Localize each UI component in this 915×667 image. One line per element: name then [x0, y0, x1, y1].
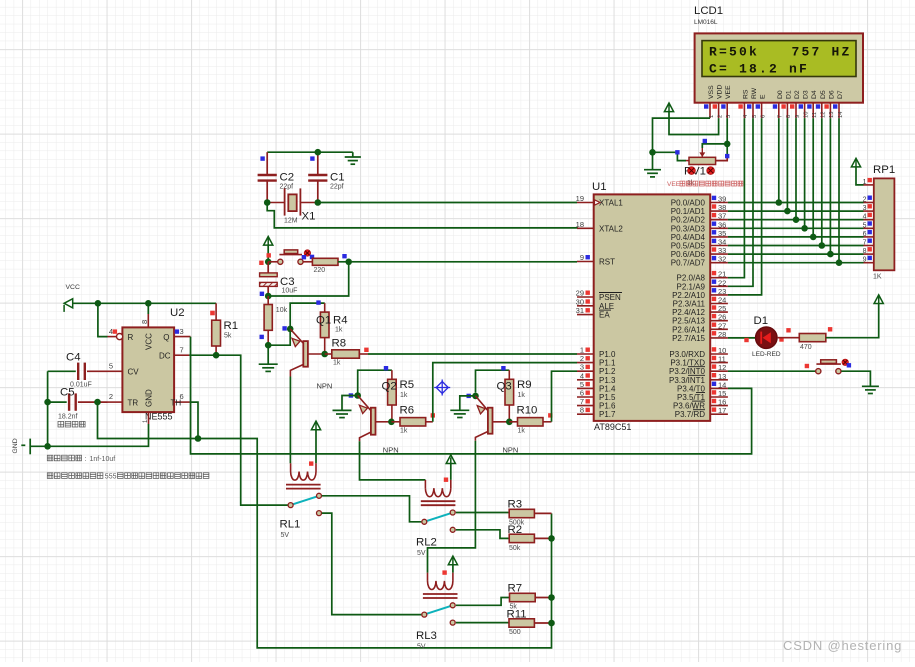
svg-text:RP1: RP1	[873, 164, 895, 176]
svg-text:VDD: VDD	[717, 85, 724, 99]
svg-text:3: 3	[180, 327, 184, 336]
LED D1 LED-RED	[756, 327, 777, 348]
node VSS/pot junction	[649, 149, 656, 156]
resistor R10 1k	[518, 418, 544, 426]
svg-text:VSS: VSS	[708, 85, 715, 99]
wire button/220 to RST	[338, 261, 577, 263]
node Q2 base / R5 / R6 junction	[388, 419, 395, 426]
svg-text:CSDN @hestering: CSDN @hestering	[783, 638, 902, 653]
U2 pin DC pin 7 stub	[174, 354, 189, 356]
node Q1 base / R8 / R4 junction	[321, 351, 328, 358]
wire R7 right to rail	[535, 597, 551, 599]
svg-text:1k: 1k	[333, 360, 341, 367]
wire VCC rail to R1	[73, 302, 216, 304]
svg-text:CV: CV	[128, 368, 140, 377]
svg-text:32: 32	[718, 255, 726, 264]
wire P2.0 to LCD RS	[728, 118, 745, 278]
wire R8 to U1 P1.0	[368, 353, 577, 355]
svg-text:nF: nF	[789, 61, 809, 76]
U2 pin Q pin 3 stub	[174, 336, 190, 338]
U2 pin VCC pin 8 stub	[147, 314, 149, 327]
svg-text:AT89C51: AT89C51	[594, 422, 631, 432]
svg-text:5: 5	[863, 222, 867, 229]
LCD pins 1-14	[704, 85, 715, 118]
U1 right pins	[671, 195, 728, 208]
wire R2 right to rail	[534, 537, 551, 539]
svg-text:VEE: VEE	[725, 85, 732, 99]
svg-text:GND: GND	[145, 389, 154, 407]
node R2/R3 rail junction	[548, 535, 555, 542]
wire R9 top loop to Q3 node	[476, 370, 510, 392]
wire 10k node to ground	[267, 345, 269, 364]
svg-text:R10: R10	[517, 405, 538, 417]
U1 left pins	[576, 194, 624, 208]
svg-text:14: 14	[838, 111, 844, 118]
transistor Q3 NPN	[475, 396, 509, 441]
U2 pin TH pin 6 stub	[174, 401, 190, 403]
svg-text:1k: 1k	[518, 428, 526, 435]
microcontroller U1 AT89C51 body	[594, 194, 711, 421]
svg-text:VCC: VCC	[66, 284, 80, 291]
node R11 rail junction	[548, 620, 555, 627]
display LCD1 LM016L body	[695, 33, 863, 102]
wire P3.2 to push button	[728, 370, 816, 372]
svg-text:LM016L: LM016L	[694, 19, 718, 26]
wire 10k node to Q1 emitter node	[268, 329, 290, 345]
node R7 rail junction	[548, 594, 555, 601]
power terminal VCC at 470	[874, 295, 883, 304]
svg-text:19: 19	[576, 194, 584, 203]
svg-text:1k: 1k	[335, 327, 343, 334]
svg-text:R4: R4	[333, 315, 348, 327]
wire RST node down to C3 bottom node	[268, 262, 349, 296]
svg-text:10uF: 10uF	[282, 288, 298, 295]
crystal X1 12M	[267, 188, 318, 215]
svg-text:C3: C3	[280, 276, 295, 288]
svg-text:XTAL1: XTAL1	[599, 199, 623, 208]
svg-text:NPN: NPN	[383, 446, 399, 455]
svg-text:1k: 1k	[400, 392, 408, 399]
svg-text:D7: D7	[837, 90, 844, 99]
note recommended capacitance	[47, 455, 81, 461]
RP1 pins 1-9	[863, 178, 874, 186]
resistor R11 500	[509, 619, 534, 627]
svg-text:P2.7/A15: P2.7/A15	[672, 334, 705, 343]
svg-text:7: 7	[863, 240, 867, 247]
power terminal VCC at RL3	[448, 556, 457, 565]
wire C4/C5 left leg down to ground rail	[47, 371, 49, 446]
wire R10 to U1 P1.2	[552, 371, 578, 422]
node ground rail	[44, 443, 51, 450]
resistor R4 1k vertical	[324, 303, 326, 354]
svg-text:2: 2	[717, 115, 723, 118]
svg-text:R11: R11	[507, 609, 527, 621]
svg-text:1k: 1k	[518, 392, 526, 399]
svg-text:18.2nf: 18.2nf	[58, 414, 78, 421]
svg-text:TR: TR	[128, 398, 139, 407]
breakpoint marker circles at RV1	[688, 167, 696, 175]
svg-text:C5: C5	[60, 387, 75, 399]
power terminal VCC above C3	[264, 237, 273, 246]
wire P0 bus to RP1	[728, 202, 864, 204]
svg-text:1: 1	[863, 179, 867, 186]
svg-text:5k: 5k	[224, 333, 232, 340]
svg-text:12M: 12M	[284, 218, 298, 225]
svg-text:R=50k: R=50k	[709, 45, 759, 60]
svg-text:NPN: NPN	[503, 446, 519, 455]
node Q3 emitter junction	[472, 393, 479, 400]
wire Q1 collector down to RL1 coil	[289, 377, 291, 464]
svg-text:D1: D1	[754, 315, 769, 327]
breakpoint marker red circle on button 2	[842, 359, 848, 365]
wire Q2 node to ground	[342, 396, 358, 411]
ground at Q3	[450, 410, 469, 417]
wire wiper link	[702, 144, 727, 148]
resistor R6 1k	[400, 418, 426, 426]
relay RL1 coil	[286, 463, 321, 488]
svg-text:9: 9	[795, 115, 801, 118]
wire VCC to 555 reset pin 4	[98, 303, 108, 336]
resistor R1 5k	[215, 303, 217, 355]
svg-text:R: R	[128, 333, 134, 342]
wire VSS node to RV1 left	[653, 152, 687, 160]
svg-text:50k: 50k	[509, 545, 521, 552]
svg-text:1K: 1K	[873, 274, 882, 281]
wire RP1 pin1 to VCC	[856, 167, 864, 185]
svg-text:R1: R1	[224, 320, 239, 332]
power terminal VCC at RL2	[446, 455, 455, 465]
node VEE/wiper junction	[724, 141, 731, 148]
svg-text:D0: D0	[777, 90, 784, 99]
resistor R7 5k	[510, 593, 536, 601]
relay RL2 switch	[422, 510, 455, 532]
power terminal VCC for LCD VDD	[664, 103, 673, 112]
XTAL1 input arrow mark	[595, 200, 601, 205]
push button (count)	[816, 360, 841, 374]
svg-text:VEE: VEE	[667, 181, 681, 188]
svg-text:R7: R7	[508, 583, 523, 595]
svg-text:NPN: NPN	[317, 382, 333, 391]
svg-text:18: 18	[576, 220, 584, 229]
note 555 accuracy	[47, 473, 103, 479]
wire P2.2 to LCD E	[728, 118, 762, 295]
power terminal VCC (left)	[64, 299, 73, 312]
svg-text:28: 28	[718, 330, 726, 339]
svg-text:P3.7/RD: P3.7/RD	[675, 410, 705, 419]
wire button to ground	[841, 371, 870, 386]
svg-text:31: 31	[576, 306, 584, 315]
svg-text:8: 8	[580, 406, 584, 415]
capacitor C2 22pf	[258, 152, 277, 202]
LCD screen	[702, 41, 856, 77]
power terminal VCC at RP1	[851, 158, 860, 167]
svg-text:P1.7: P1.7	[599, 410, 616, 419]
svg-text:LED-RED: LED-RED	[752, 351, 781, 358]
relay RL1 switch	[288, 493, 321, 515]
node Q2 emitter junction	[354, 392, 361, 399]
wire LCD VDD to VCC	[669, 112, 719, 135]
node VCC/R junction	[95, 300, 102, 307]
capacitor C4	[48, 363, 108, 380]
svg-text:RW: RW	[751, 87, 758, 99]
origin marker blue	[434, 380, 450, 396]
node TR branch junction	[94, 399, 101, 406]
svg-text:757 HZ: 757 HZ	[792, 45, 852, 60]
svg-text:11: 11	[812, 112, 818, 118]
relay RL3 switch	[422, 603, 455, 625]
wire RL2 coil right to VCC	[450, 464, 452, 480]
wire top rail C2/C1 to ground	[267, 151, 353, 153]
ground at Q2	[333, 410, 352, 417]
svg-text:R2: R2	[508, 524, 523, 536]
svg-text:30: 30	[576, 297, 584, 306]
wire XTAL2 staircase	[267, 203, 577, 229]
push button (reset)	[268, 250, 312, 265]
resistor 220 (reset)	[312, 258, 338, 265]
node C2 bottom junction	[264, 199, 271, 206]
wire 555 output Q down and right to T0 rail	[191, 337, 752, 454]
svg-text:R5: R5	[400, 379, 415, 391]
resistor R8 1k	[332, 350, 360, 358]
svg-text:1k: 1k	[400, 428, 408, 435]
svg-text:C1: C1	[330, 172, 345, 184]
resistor R2 50k	[509, 534, 534, 542]
svg-text:4: 4	[109, 327, 113, 336]
U2 pin GND pin 1 stub	[148, 412, 150, 424]
wire LCD VEE to RV1 wiper and right end	[726, 118, 728, 157]
svg-text:7: 7	[180, 345, 184, 354]
svg-text:EA: EA	[599, 311, 610, 320]
wire VCC to C3 node	[267, 245, 269, 262]
transistor Q1 NPN	[290, 329, 325, 377]
svg-text:P0.7/AD7: P0.7/AD7	[671, 259, 706, 268]
wire LCD D0-D7 down to P0 bus with junctions	[778, 118, 780, 202]
svg-text:13: 13	[829, 112, 835, 118]
power terminal GND (left)	[21, 439, 30, 455]
svg-text:Q: Q	[163, 333, 169, 342]
capacitor C3 10uF electrolytic	[260, 262, 278, 296]
wire P2.1 to LCD RW	[728, 118, 753, 286]
power terminal VCC at RL1	[311, 421, 320, 430]
node C1 top junction	[315, 149, 322, 156]
svg-text:R9: R9	[517, 379, 532, 391]
svg-text:Q1: Q1	[316, 315, 331, 327]
wire R3 right to rail	[534, 512, 551, 514]
svg-text:5V: 5V	[281, 532, 290, 539]
node C1 bottom junction	[315, 199, 322, 206]
svg-text:2: 2	[863, 197, 867, 204]
U2 pin CV pin 5 stub	[108, 370, 123, 372]
svg-text:22pf: 22pf	[330, 184, 344, 191]
resistor 10k vertical	[267, 296, 269, 345]
resistor R9 1k vertical	[508, 370, 510, 422]
svg-text:PSEN: PSEN	[599, 293, 621, 302]
wire GND rail	[30, 424, 148, 446]
wire RL1 NC contact to RL2 common	[322, 496, 422, 522]
svg-text:6: 6	[760, 115, 766, 118]
ground under LCD VSS	[644, 170, 661, 177]
svg-text:RL2: RL2	[416, 537, 437, 549]
svg-text:U1: U1	[592, 181, 607, 193]
resistor pack RP1 1K body	[874, 178, 895, 270]
ground at button	[862, 386, 879, 393]
svg-text:8: 8	[140, 320, 149, 324]
wire RL3 NO contact to R11	[456, 622, 509, 624]
svg-text:6: 6	[863, 231, 867, 238]
svg-text:17: 17	[718, 406, 726, 415]
svg-text:8: 8	[786, 115, 792, 118]
svg-text:X1: X1	[302, 211, 316, 223]
svg-text:4: 4	[863, 214, 867, 221]
svg-text:5V: 5V	[417, 644, 426, 651]
breakpoint marker red circle on button	[304, 250, 310, 256]
svg-text:GND: GND	[12, 438, 19, 453]
svg-text:1nf-10uf: 1nf-10uf	[90, 456, 116, 463]
svg-text:RS: RS	[742, 89, 749, 99]
wire LED to resistor 470	[777, 337, 799, 339]
U2 pin R with inversion bubble pin 4	[108, 334, 123, 340]
svg-text:500: 500	[509, 629, 521, 636]
svg-text:DC: DC	[159, 351, 171, 360]
node R1/DC junction	[213, 352, 220, 359]
ground (crystal top right)	[352, 152, 354, 157]
svg-text:D4: D4	[811, 90, 818, 99]
svg-text:C4: C4	[66, 352, 81, 364]
wire Q3 node to ground	[460, 396, 476, 410]
wire DC to R1 bottom node and down to relay RL1 common	[189, 355, 288, 505]
U2 pin TR pin 2 stub	[108, 401, 123, 403]
svg-text:10: 10	[803, 112, 809, 118]
wire Q2 collector to RL2 coil	[360, 441, 426, 480]
svg-text:7: 7	[778, 115, 784, 118]
resistor 470	[799, 334, 826, 342]
op-amp U2 body NE555	[122, 327, 174, 412]
node 10k bottom junction	[265, 342, 272, 349]
svg-text:D1: D1	[785, 90, 792, 99]
svg-text:TH: TH	[171, 398, 182, 407]
wire 470 to VCC	[826, 304, 879, 338]
potentiometer RV1 1k	[686, 148, 716, 165]
resistor R5 1k vertical	[391, 370, 393, 422]
svg-text:RL1: RL1	[280, 519, 301, 531]
relay RL2 coil	[421, 480, 456, 505]
ground under 10k	[259, 364, 278, 371]
svg-text:470: 470	[800, 344, 812, 351]
wire R4 top loop to Q1 emitter node	[290, 303, 325, 329]
wire P2.7 to LED D1	[728, 337, 755, 339]
svg-text:RL3: RL3	[416, 630, 437, 642]
capacitor C5	[48, 393, 108, 410]
svg-text:XTAL2: XTAL2	[599, 224, 623, 233]
svg-text::: :	[85, 456, 87, 463]
svg-text:220: 220	[314, 267, 326, 274]
wire TR node down along bottom to measuring rail	[98, 402, 552, 648]
svg-text:LCD1: LCD1	[694, 5, 723, 17]
wire RV1 right pin	[716, 157, 728, 161]
svg-text:12: 12	[821, 112, 827, 118]
svg-text:E: E	[760, 94, 767, 99]
wire RL3 NC contact to R7	[456, 598, 510, 606]
wire Q3 collector to RL3 coil	[428, 441, 476, 573]
svg-text:R3: R3	[508, 499, 523, 511]
svg-text:9: 9	[863, 257, 867, 264]
svg-text:10k: 10k	[276, 307, 288, 314]
svg-text:RST: RST	[599, 258, 615, 267]
resistor R3 500k	[509, 509, 534, 517]
svg-text:D5: D5	[820, 90, 827, 99]
svg-text:R6: R6	[400, 405, 415, 417]
svg-text:D2: D2	[794, 90, 801, 99]
svg-text:ALE: ALE	[599, 302, 614, 311]
svg-text:3: 3	[863, 205, 867, 212]
wire R5 top loop to Q2 node	[358, 370, 392, 392]
transistor Q2 NPN	[358, 396, 392, 442]
svg-text:8: 8	[863, 248, 867, 255]
svg-text:D3: D3	[803, 90, 810, 99]
svg-text:5: 5	[109, 361, 113, 370]
capacitor C1 22pf	[308, 152, 327, 202]
svg-text:Q3: Q3	[497, 381, 512, 393]
node Q1 emitter junction	[287, 326, 294, 333]
node C3 bottom junction	[265, 293, 272, 300]
wire 555 VCC pin 8	[147, 303, 149, 314]
svg-text:2: 2	[109, 392, 113, 401]
svg-text:5: 5	[752, 115, 758, 118]
wire R6 to U1 P1.1	[433, 363, 577, 422]
svg-text:C2: C2	[280, 172, 295, 184]
svg-text:22pf: 22pf	[280, 184, 294, 191]
svg-text:D6: D6	[828, 90, 835, 99]
svg-text:U2: U2	[170, 307, 185, 319]
node TH/TR junction	[195, 435, 202, 442]
svg-text:29: 29	[576, 289, 584, 298]
note capacitor under test	[58, 421, 85, 427]
svg-text:Q2: Q2	[382, 381, 397, 393]
svg-text:5V: 5V	[417, 550, 426, 557]
node Q3 base / R9 / R10 junction	[506, 419, 513, 426]
node C5 left	[44, 399, 51, 406]
svg-text:555: 555	[105, 474, 117, 481]
node VCC/pin8 junction	[145, 300, 152, 307]
wire TH to TR link	[190, 402, 198, 438]
relay RL3 coil	[423, 573, 458, 598]
wire RL1 NO contact to RL3 common	[322, 513, 422, 615]
svg-text:VCC: VCC	[145, 333, 154, 350]
wire R11 right to rail	[534, 622, 551, 624]
svg-text:3: 3	[726, 115, 732, 118]
wire LCD VSS to ground	[653, 118, 711, 170]
svg-text:R8: R8	[332, 338, 347, 350]
wire RL1 coil right to VCC	[315, 430, 317, 464]
wire RL2 NC contact to R3	[456, 512, 509, 515]
node C3/button junction	[265, 259, 272, 266]
svg-text:C= 18.2: C= 18.2	[709, 61, 779, 76]
node 220/RST junction	[345, 259, 352, 266]
wire XTAL1	[318, 202, 577, 204]
wire RL2 NO contact to R2	[456, 530, 509, 539]
wire RL3 coil right to VCC	[452, 565, 454, 573]
svg-text:9: 9	[580, 253, 584, 262]
